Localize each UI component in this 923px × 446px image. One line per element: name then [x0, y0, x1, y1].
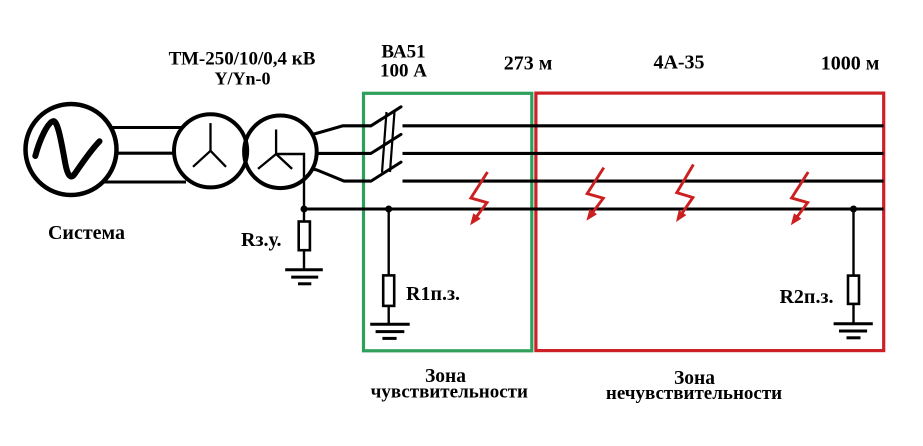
ground below Rз.у.: [285, 270, 323, 284]
node: neutral tap junction: [301, 206, 308, 213]
ground below R2п.з.: [834, 324, 873, 338]
svg-text:Y/Yn-0: Y/Yn-0: [214, 69, 270, 89]
svg-text:чувствительности: чувствительности: [371, 382, 528, 403]
svg-text:ТМ-250/10/0,4 кВ: ТМ-250/10/0,4 кВ: [169, 49, 316, 70]
transformer winding 2 stroke: [244, 116, 317, 189]
fault bolt 1: [470, 172, 487, 225]
resistor R2п.з.: [852, 209, 854, 276]
svg-text:4А-35: 4А-35: [653, 52, 704, 74]
svg-text:R2п.з.: R2п.з.: [779, 286, 833, 308]
generator G system circle: [26, 104, 117, 195]
resistor Rз.у.: [303, 209, 305, 222]
node: R2 junction: [850, 206, 857, 213]
transformer winding 1 stroke: [174, 114, 247, 187]
svg-text:Система: Система: [48, 222, 125, 244]
circuit breaker QF blades: [371, 107, 401, 181]
wire: neutral tap from wye center: [276, 154, 304, 209]
svg-text:1000 м: 1000 м: [821, 53, 880, 75]
circuit breaker linkage bars: [382, 112, 395, 173]
svg-text:273 м: 273 м: [504, 53, 553, 75]
svg-text:100 А: 100 А: [380, 60, 427, 81]
zone box: Зона чувствительности (green): [364, 93, 532, 351]
svg-text:нечувствительности: нечувствительности: [606, 383, 782, 404]
wire: fan-out transformer to breaker: [300, 126, 371, 181]
wye symbol winding 1: [193, 123, 226, 167]
wire: three phase links system to transformer: [100, 128, 186, 183]
generator circle stroke: [26, 104, 117, 195]
wire: phase lines after breaker: [403, 126, 884, 181]
wire: neutral (PEN) bus: [304, 207, 884, 210]
transformer T1 winding 2: [244, 116, 317, 189]
sine symbol inside generator: [35, 121, 99, 176]
fault bolt 4: [791, 172, 808, 225]
transformer T1 winding 1: [174, 114, 247, 187]
zone box: Зона нечувствительности (red): [536, 93, 884, 351]
fault bolt 2: [586, 168, 603, 221]
fault bolt 3: [676, 165, 693, 223]
resistor R1п.з.: [388, 209, 390, 275]
node: R1 junction: [385, 206, 392, 213]
svg-text:R1п.з.: R1п.з.: [406, 283, 460, 305]
svg-text:Rз.у.: Rз.у.: [241, 229, 281, 251]
ground below R1п.з.: [370, 324, 410, 338]
wye symbol winding 2: [258, 130, 292, 169]
